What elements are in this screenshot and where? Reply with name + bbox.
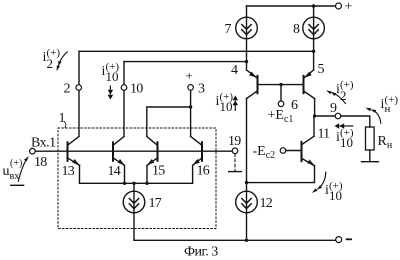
wire Q11 base (286, 150, 301, 152)
label 11 (318, 127, 331, 142)
junction dot CS17 tap (132, 182, 135, 185)
transistor Q5 (304, 70, 315, 99)
label 12 (260, 196, 273, 211)
label 14 (108, 164, 121, 179)
svg-text:12: 12 (260, 196, 273, 211)
wire Rn bottom (369, 150, 371, 162)
transistor Q14 (113, 137, 125, 166)
wire top rail to + terminal (247, 5, 336, 7)
wire node 9 horizontal to Rn (315, 116, 370, 127)
label 5 (318, 62, 325, 77)
label 2 (64, 82, 71, 97)
label 17 (149, 196, 162, 211)
current source 8 (303, 17, 325, 39)
label +Ec1 (268, 108, 294, 125)
label 1 (59, 111, 66, 126)
label i10 node10 (102, 61, 120, 84)
node 3 terminal (188, 85, 194, 91)
label 7 (225, 22, 232, 37)
svg-text:i(+)н: i(+)н (381, 94, 399, 115)
svg-text:+Eс1: +Eс1 (268, 108, 294, 125)
svg-text:+: + (186, 68, 193, 83)
svg-text:3: 3 (198, 82, 205, 97)
svg-text:i(+)10: i(+)10 (102, 61, 120, 84)
label u_vx (3, 158, 23, 182)
label Fig 3 (184, 245, 218, 260)
node 5 junction dot (312, 50, 315, 53)
transistor Q11 (302, 136, 315, 166)
svg-text:15: 15 (152, 164, 165, 179)
ground bar u_vx (11, 184, 24, 186)
svg-text:Вх.1: Вх.1 (31, 136, 56, 151)
wire node 3 vertical (190, 90, 192, 136)
svg-text:16: 16 (197, 164, 210, 179)
wire Q13 emitter (79, 165, 81, 183)
arrow i10 node9 double-head left (335, 123, 353, 129)
svg-text:6: 6 (291, 98, 298, 113)
wire CS7 down to transistor 4 emitter (246, 39, 248, 70)
svg-text:5: 5 (318, 62, 325, 77)
svg-text:+: + (345, 0, 353, 15)
svg-text:11: 11 (318, 127, 331, 142)
wire base rail (35, 150, 232, 152)
svg-text:8: 8 (293, 22, 300, 37)
label 6 (291, 98, 298, 113)
terminal -Ec2 (280, 148, 286, 154)
junction dot node3/T15 branch (189, 105, 192, 108)
wire CS17 top (133, 183, 135, 191)
transistor Q13 (68, 137, 80, 166)
wire Q14 emitter (124, 165, 126, 183)
label 9 (330, 101, 337, 116)
ground bar node 19 (229, 171, 242, 173)
arrow u_vx curved (18, 156, 29, 181)
arrow i10 Q11 emitter double-head curved (312, 172, 326, 193)
resistor Rn (366, 127, 375, 150)
wire common emitter rail (80, 182, 193, 184)
wire CS17 down to rail (133, 213, 135, 241)
dashed box compound stage 1 (58, 128, 216, 229)
arrow i2 node9 double-head curved (326, 90, 346, 103)
arrow i10 node4 double-head up (233, 96, 239, 111)
svg-text:4: 4 (231, 63, 238, 78)
wire CS8 top vertical (313, 6, 315, 17)
svg-text:-Eс2: -Eс2 (253, 144, 276, 161)
wire CS8 down to transistor 5 emitter (313, 39, 315, 70)
label i10 Q11 emitter (325, 180, 343, 203)
svg-text:17: 17 (149, 196, 162, 211)
junction dot node 9 left (313, 114, 316, 117)
label i_n (381, 94, 399, 115)
node junction CS8 top (312, 4, 315, 7)
svg-text:2: 2 (64, 82, 71, 97)
node 2 (76, 85, 82, 91)
junction dot Q15 emitter (145, 182, 148, 185)
wire node 6 vertical (280, 85, 282, 101)
arrow i2 top-left double-head (57, 52, 68, 72)
svg-text:9: 9 (330, 101, 337, 116)
wire CS7 top vertical (246, 6, 248, 17)
label Rn (378, 134, 393, 151)
svg-text:7: 7 (225, 22, 232, 37)
transistor Q16 (191, 137, 202, 166)
transistor Q15 (147, 137, 158, 166)
wire common base Q4-Q5 (259, 84, 303, 86)
wire Q16 emitter (192, 165, 194, 183)
label 13 (62, 164, 75, 179)
wire node 10 vertical (123, 62, 125, 136)
current source 12 (236, 191, 258, 213)
label 3 (198, 82, 205, 97)
label 8 (293, 22, 300, 37)
wire branch to transistor 15 collector (147, 107, 191, 136)
label 15 (152, 164, 165, 179)
label i2 top-left (43, 47, 61, 71)
node 19 terminal (232, 148, 238, 154)
svg-text:14: 14 (108, 164, 121, 179)
svg-text:19: 19 (228, 134, 241, 149)
svg-text:i(+)2: i(+)2 (336, 79, 354, 103)
svg-text:18: 18 (34, 155, 47, 170)
current source 7 (236, 17, 258, 39)
wire Q11 emitter down and left (247, 166, 315, 183)
label + node3 (186, 68, 193, 83)
label i2 node9 (336, 79, 354, 103)
node 4 junction dot (245, 60, 248, 63)
wire B: node 10 to node 4 (124, 61, 247, 63)
tick after label 1 (65, 122, 66, 128)
svg-text:10: 10 (130, 82, 143, 97)
wire CS12 down (246, 213, 248, 241)
wire Q4 collector down to CS12 (246, 99, 248, 192)
wire A: node 2 to node 5 (79, 50, 314, 52)
bottom rail to - terminal (134, 239, 336, 241)
svg-text:Rн: Rн (378, 134, 393, 151)
junction dot CS12 bottom rail (245, 239, 248, 242)
svg-text:Фиг. 3: Фиг. 3 (184, 245, 218, 260)
label + supply (345, 0, 353, 15)
node 6 terminal (278, 101, 284, 107)
svg-text:i(+)10: i(+)10 (336, 127, 354, 150)
label i10 node4 (216, 91, 234, 114)
label 4 (231, 63, 238, 78)
node 10 (121, 85, 127, 91)
svg-text:i(+)10: i(+)10 (216, 91, 234, 114)
wire Q11 collector up (313, 116, 315, 136)
label 10 (130, 82, 143, 97)
junction dot Q11 emitter to CS12 line (245, 181, 248, 184)
junction dot Q14 emitter (123, 182, 126, 185)
arrow i10 node10 double-head down (108, 86, 114, 100)
label 16 (197, 164, 210, 179)
label 18 (34, 155, 47, 170)
svg-text:i(+)10: i(+)10 (325, 180, 343, 203)
label 19 (228, 134, 241, 149)
junction dot node 6 tap (279, 83, 282, 86)
label - supply (346, 238, 352, 240)
svg-text:13: 13 (62, 164, 75, 179)
label -Ec2 (253, 144, 276, 161)
label i10 node9 (336, 127, 354, 150)
wire Q5 collector down to node 9 (314, 99, 316, 116)
arrow i_n double-head curved (365, 108, 381, 124)
terminal - (minus supply) (336, 237, 342, 243)
node 18 input terminal (30, 148, 36, 154)
dashed stub below node 19 (234, 154, 236, 171)
node 9 (335, 113, 341, 119)
transistor Q4 (247, 70, 258, 99)
terminal + (plus supply) (336, 3, 342, 9)
svg-text:1: 1 (59, 111, 66, 126)
current source 17 (123, 191, 145, 213)
label Vx.1 (31, 136, 56, 151)
ground Rn (362, 161, 379, 163)
wire node 2 vertical (78, 51, 80, 136)
wire Q15 emitter (146, 165, 148, 183)
